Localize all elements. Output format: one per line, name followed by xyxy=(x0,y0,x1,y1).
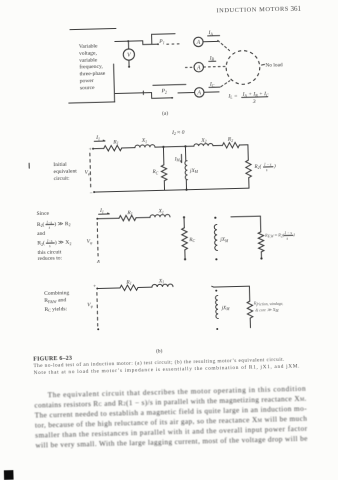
induction motor (no load) xyxy=(226,50,260,84)
svg-text:∧: ∧ xyxy=(96,259,100,265)
inductor jX1 (b3) xyxy=(152,284,173,287)
inductor jX1 (b1) xyxy=(135,145,155,148)
wire dashed diagonal to motor xyxy=(218,40,230,51)
svg-text:equivalent: equivalent xyxy=(53,168,77,175)
node: voltmeter tap junction xyxy=(127,40,129,42)
black scan mark bottom left xyxy=(4,470,14,480)
resistor R1 (b1) xyxy=(104,145,122,151)
wire bottom rail xyxy=(94,188,249,192)
inductor jXM branch (b2) xyxy=(214,217,216,219)
voltmeter V xyxy=(123,49,134,60)
label No load xyxy=(261,63,264,66)
svg-text:): ) xyxy=(273,162,276,169)
wire dashed phase A to ammeter xyxy=(167,43,181,45)
resistor RC vertical xyxy=(162,147,164,165)
node on phase C xyxy=(142,91,146,95)
svg-text:361: 361 xyxy=(290,5,301,13)
inductor jX2 xyxy=(194,143,213,146)
wire phase C from source xyxy=(115,92,151,95)
node terminal xyxy=(96,218,98,220)
svg-text:reduces to:: reduces to: xyxy=(38,255,63,262)
three-phase power source box xyxy=(70,28,116,29)
svg-text:+: + xyxy=(93,284,97,290)
wattmeter P1 xyxy=(143,40,158,44)
svg-text:Initial: Initial xyxy=(53,162,67,168)
wire voltmeter lower lead xyxy=(128,60,130,66)
svg-text:source: source xyxy=(80,85,95,91)
svg-text:I2 ≈ 0: I2 ≈ 0 xyxy=(171,130,185,137)
resistor R2(1-s)/s branch with top bracket xyxy=(231,216,261,233)
svg-text:+: + xyxy=(88,147,92,153)
wire top rail left xyxy=(93,147,104,149)
ammeter A (phase B) xyxy=(194,62,204,72)
ammeter A (phase A) xyxy=(194,37,204,47)
wire from ammeter C xyxy=(204,91,219,93)
svg-text:variable: variable xyxy=(79,57,98,63)
wire phase A from source xyxy=(115,40,143,43)
wire dashed diagonal up to motor xyxy=(221,81,230,87)
resistor R2(1-s)/s load xyxy=(246,160,252,178)
wire xyxy=(97,217,119,220)
svg-text:power: power xyxy=(80,78,94,84)
svg-text:three-phase: three-phase xyxy=(79,71,105,78)
wire voltmeter stem xyxy=(127,41,129,49)
svg-text:voltage,: voltage, xyxy=(79,50,98,56)
wattmeter P2 xyxy=(152,92,172,98)
node junction XM xyxy=(184,145,186,147)
svg-text:) ≫ R2: ) ≫ R2 xyxy=(54,220,70,228)
wire phase C to ammeter xyxy=(178,92,194,94)
wire dashed phase B xyxy=(185,66,193,68)
svg-text:(b): (b) xyxy=(156,347,163,354)
source V-phi (b1) xyxy=(89,153,92,187)
resistor R1 (b3) xyxy=(120,285,138,291)
svg-text:A: A xyxy=(196,90,201,96)
wire from ammeter A xyxy=(203,40,218,42)
svg-text:−: − xyxy=(89,191,93,197)
stray mark left margin xyxy=(28,163,30,168)
svg-text:Since: Since xyxy=(37,211,50,217)
svg-text:A: A xyxy=(196,40,201,46)
svg-text:and: and xyxy=(37,231,45,237)
svg-text:Variable: Variable xyxy=(79,43,98,49)
wire dashed phase B to motor xyxy=(204,66,226,69)
inductor jXM branch (b3) xyxy=(215,290,217,292)
node junction RC xyxy=(162,146,164,148)
source V-phi (b3) xyxy=(96,293,99,326)
inductor jXM vertical xyxy=(184,146,186,160)
wire xyxy=(213,144,222,146)
wire xyxy=(97,287,120,290)
resistor R1 (b2) xyxy=(119,215,136,221)
svg-text:frequency,: frequency, xyxy=(79,63,103,71)
resistor R friction windage and core xyxy=(247,301,253,318)
inductor jX1 (b2) xyxy=(150,214,170,217)
svg-text:circuit:: circuit: xyxy=(54,176,70,182)
wire xyxy=(155,145,194,148)
svg-text:No load: No load xyxy=(265,62,283,68)
resistor RC branch (b2) xyxy=(183,216,185,218)
resistor R2 xyxy=(222,142,239,148)
svg-text:) ≫ X2: ) ≫ X2 xyxy=(55,239,72,247)
svg-text:RC yields:: RC yields: xyxy=(44,306,67,313)
svg-text:Combining: Combining xyxy=(44,290,70,297)
ammeter A (phase C) xyxy=(194,88,204,98)
svg-text:(a): (a) xyxy=(162,110,168,117)
svg-text:3: 3 xyxy=(252,99,256,105)
svg-text:R2(: R2( xyxy=(253,163,261,170)
source V-phi (b2) xyxy=(96,223,99,256)
svg-text:A: A xyxy=(196,65,201,71)
svg-text:IL =: IL = xyxy=(227,93,238,99)
wire top bracket xyxy=(212,285,250,302)
wire right corner down xyxy=(239,145,248,161)
